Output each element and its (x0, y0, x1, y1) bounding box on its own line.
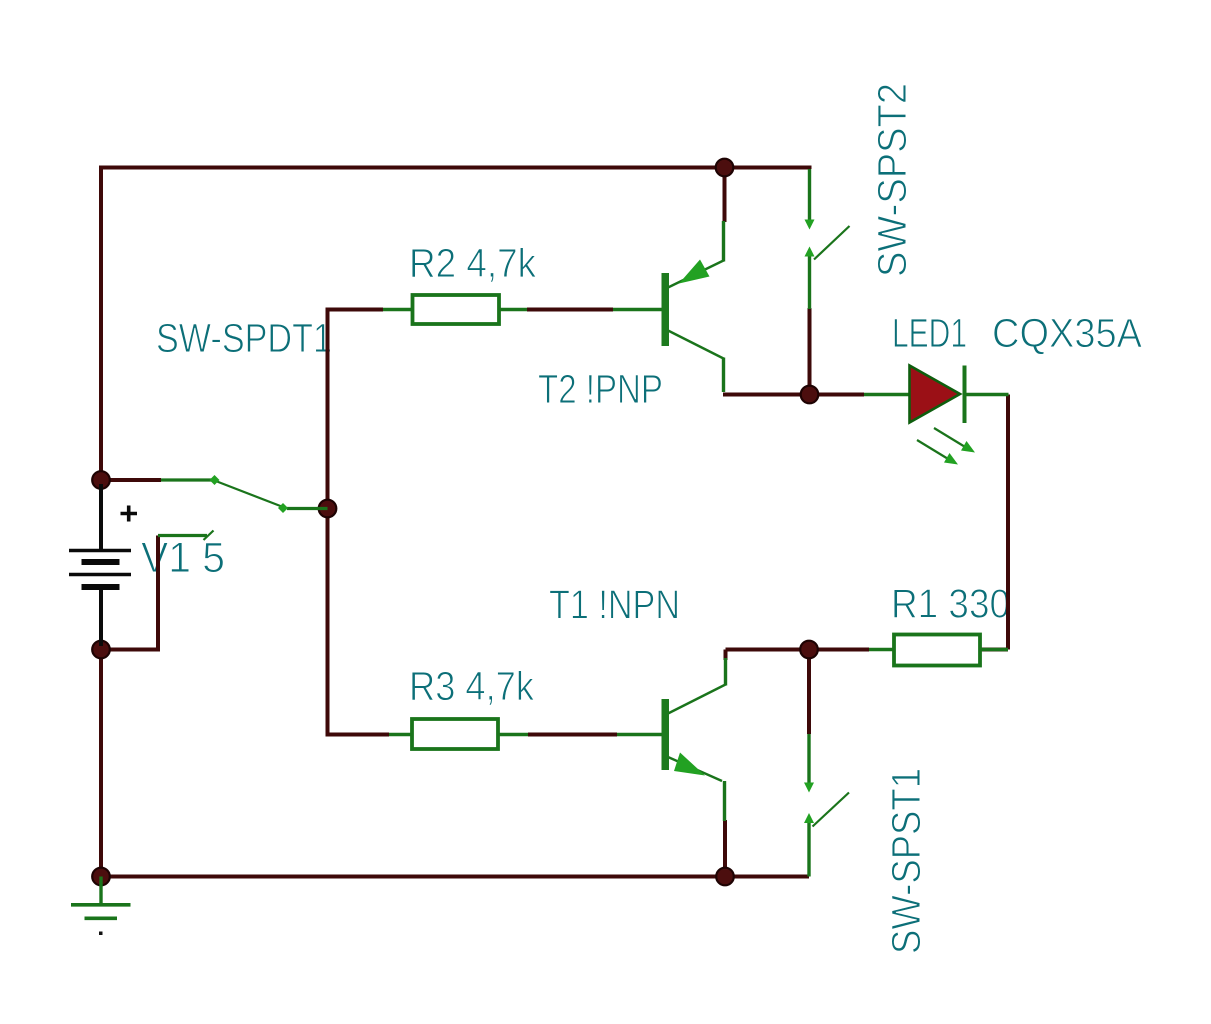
svg-text:R3 4,7k: R3 4,7k (409, 663, 534, 709)
svg-text:SW-SPST1: SW-SPST1 (883, 768, 929, 954)
svg-text:V1 5: V1 5 (141, 534, 225, 582)
svg-text:CQX35A: CQX35A (992, 310, 1143, 356)
svg-text:T1 !NPN: T1 !NPN (549, 582, 680, 628)
svg-text:T2 !PNP: T2 !PNP (538, 366, 663, 412)
svg-text:R2 4,7k: R2 4,7k (409, 240, 536, 286)
svg-text:SW-SPST2: SW-SPST2 (869, 83, 915, 277)
svg-text:R1 330: R1 330 (891, 581, 1010, 627)
svg-text:LED1: LED1 (892, 310, 967, 356)
svg-text:SW-SPDT1: SW-SPDT1 (156, 315, 332, 361)
